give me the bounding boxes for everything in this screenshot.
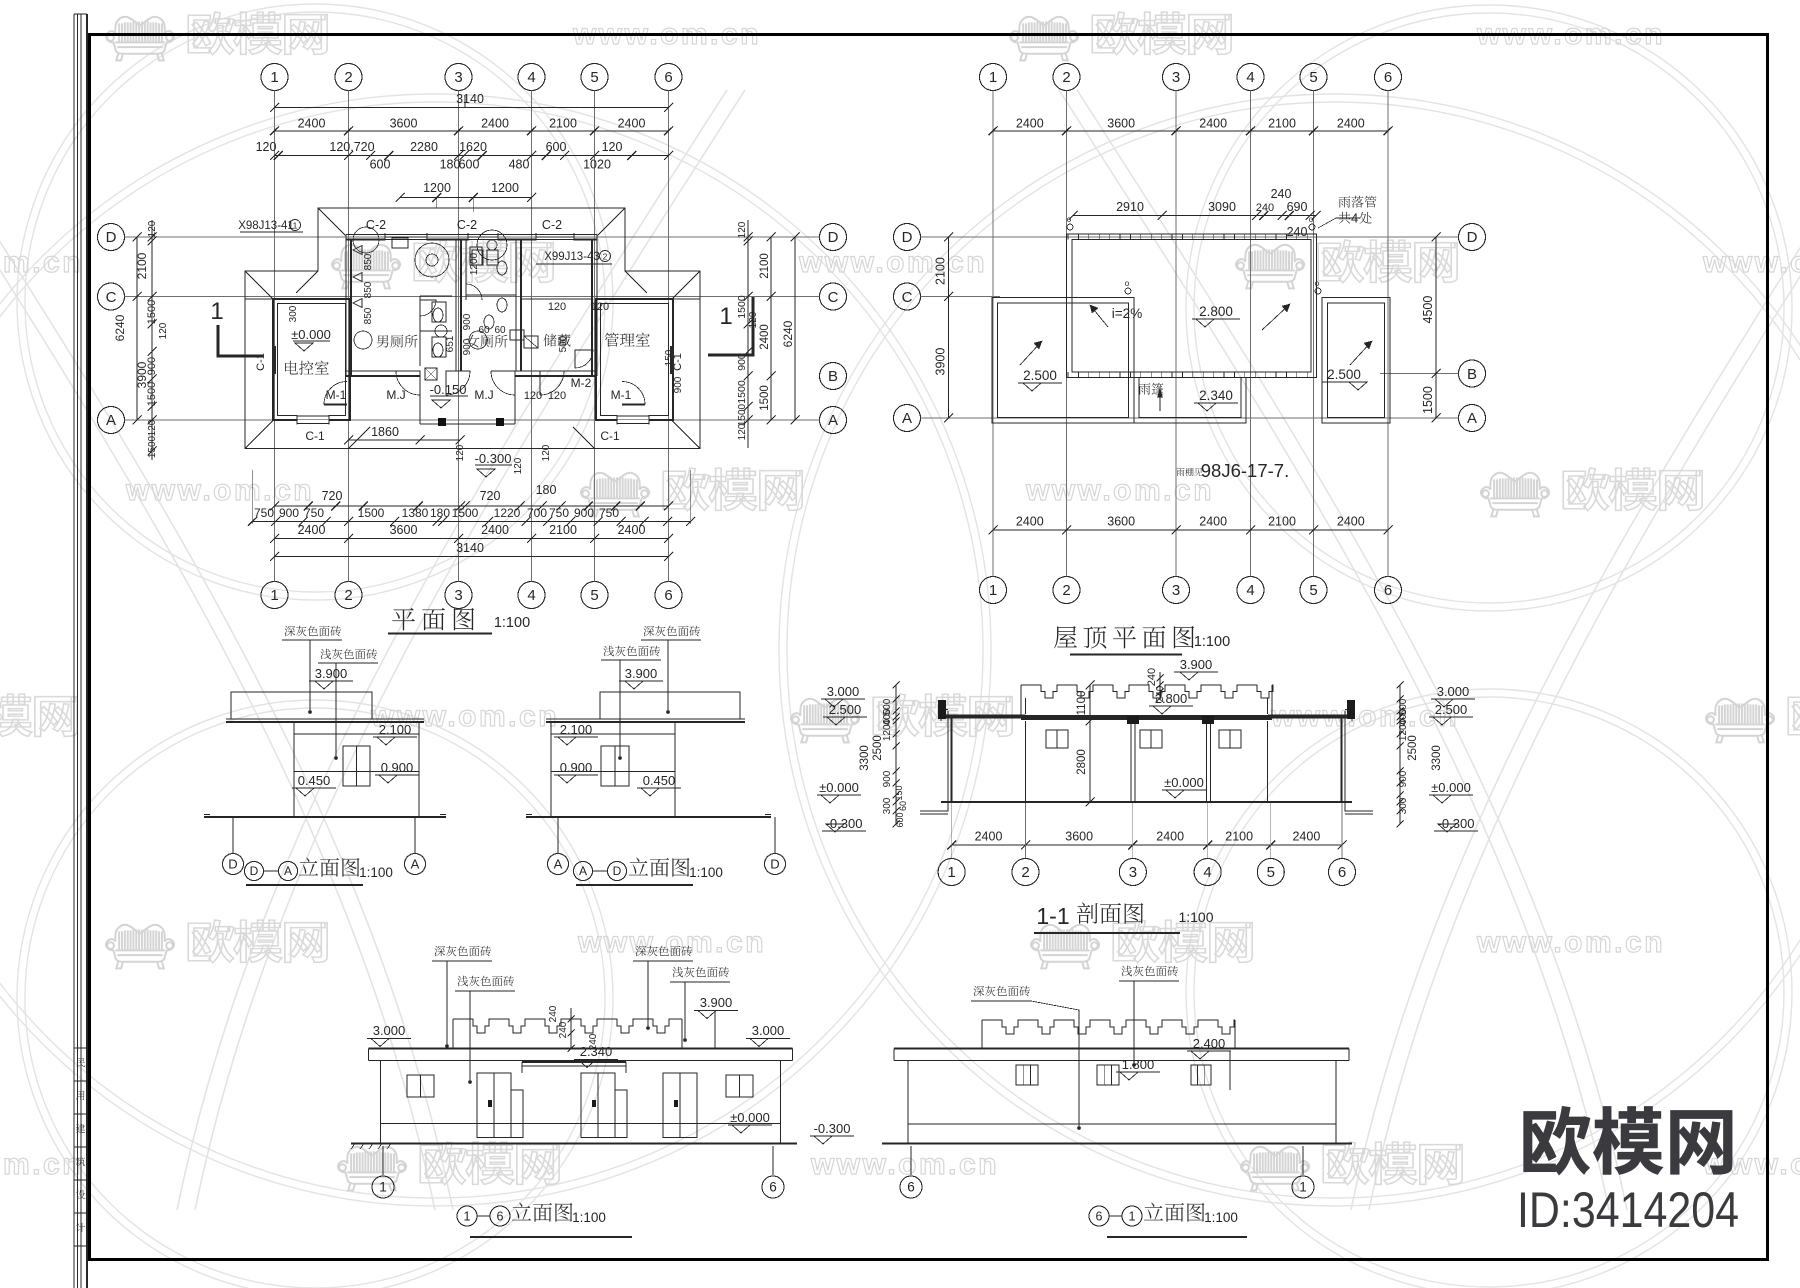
svg-text:0.900: 0.900 <box>560 760 593 775</box>
svg-text:2: 2 <box>344 587 352 604</box>
svg-text:±0.000: ±0.000 <box>1431 780 1471 795</box>
svg-text:300: 300 <box>882 797 893 814</box>
svg-text:120,720: 120,720 <box>329 140 374 154</box>
svg-text:0.450: 0.450 <box>298 773 331 788</box>
svg-text:4: 4 <box>1246 582 1254 599</box>
svg-text:120: 120 <box>737 423 748 440</box>
elevation A-D title <box>574 862 593 881</box>
svg-text:2400: 2400 <box>618 117 646 131</box>
floor plan left grid circles D C A <box>98 224 125 251</box>
floor plan urinal circle left <box>353 227 379 253</box>
svg-text:4: 4 <box>527 587 535 604</box>
floor plan wing bottom windows C-1 <box>297 415 329 424</box>
svg-text:2500: 2500 <box>872 735 884 761</box>
svg-text:60: 60 <box>478 325 490 336</box>
svg-text:2400: 2400 <box>298 523 326 537</box>
svg-text:2.800: 2.800 <box>1199 304 1233 319</box>
svg-text:3600: 3600 <box>1065 830 1093 844</box>
roof plan left vertical dims <box>948 237 950 418</box>
svg-text:2910: 2910 <box>1116 200 1144 214</box>
elevation 6-1 leader light grey tile <box>1121 966 1178 977</box>
svg-text:480: 480 <box>509 158 530 172</box>
elevation 1-6 wall band line <box>381 1123 781 1125</box>
elevation D-A leader dark grey tile <box>285 626 342 637</box>
svg-text:2400: 2400 <box>1156 830 1184 844</box>
elevation 6-1 ground line <box>882 1142 1352 1144</box>
svg-text:3140: 3140 <box>456 541 484 555</box>
svg-text:120: 120 <box>524 390 542 402</box>
svg-text:2: 2 <box>344 69 352 86</box>
elevation 6-1 grid circle 1 <box>1302 1146 1304 1175</box>
svg-text:1: 1 <box>1129 1209 1136 1223</box>
roof plan left wing roof <box>992 298 1134 424</box>
floor plan stall partitions mens <box>420 295 452 297</box>
svg-text:2400: 2400 <box>975 830 1003 844</box>
roof plan top dims 2910 3090 <box>1073 215 1316 217</box>
elevation 1-6 window left <box>407 1075 434 1097</box>
svg-text:2: 2 <box>1062 69 1070 86</box>
section grid circles <box>938 859 965 886</box>
svg-text:C-2: C-2 <box>457 218 477 232</box>
svg-text:2100: 2100 <box>1268 515 1296 529</box>
svg-text:651: 651 <box>445 335 456 352</box>
roof plan note 98J6-17-7 <box>1176 468 1202 476</box>
elevation 1-6 crenellated parapet block <box>452 1019 454 1049</box>
svg-text:D: D <box>106 229 117 246</box>
section ground slab <box>941 801 1352 803</box>
roof plan right vertical dims <box>1435 237 1437 418</box>
section dim 1100 vertical <box>1089 685 1091 721</box>
svg-text:1380: 1380 <box>402 506 429 520</box>
svg-text:5: 5 <box>590 69 598 86</box>
svg-text:0.900: 0.900 <box>381 760 414 775</box>
svg-text:2: 2 <box>1021 864 1029 881</box>
svg-text:150: 150 <box>664 349 675 366</box>
floor plan grid circles top <box>261 64 288 91</box>
svg-text:4: 4 <box>527 69 535 86</box>
svg-text:o: o <box>1315 279 1320 288</box>
elevation D-A grid circle A <box>414 817 416 853</box>
floor plan wing eave inner lines <box>245 298 273 300</box>
svg-text:M.J: M.J <box>474 388 493 402</box>
floor plan top dimension row spans <box>275 130 669 132</box>
elevation 1-6 leader dark grey tile a <box>435 946 492 957</box>
svg-text:1:100: 1:100 <box>494 615 530 631</box>
floor plan right wing room walls <box>596 299 673 420</box>
svg-text:6: 6 <box>907 1180 915 1195</box>
svg-text:150: 150 <box>894 785 904 800</box>
svg-text:4: 4 <box>1246 69 1254 86</box>
svg-text:4: 4 <box>1203 864 1211 881</box>
svg-text:3.900: 3.900 <box>625 666 658 681</box>
svg-text:M-1: M-1 <box>611 388 632 402</box>
svg-text:1500: 1500 <box>737 403 748 426</box>
svg-text:6: 6 <box>1338 864 1346 881</box>
svg-text:1: 1 <box>989 582 997 599</box>
roof plan vertical grid lines <box>992 91 994 577</box>
svg-text:X99J13-43: X99J13-43 <box>544 251 600 263</box>
svg-text:±0.000: ±0.000 <box>730 1110 770 1125</box>
roof plan grid circles top <box>980 64 1007 91</box>
svg-text:1860: 1860 <box>371 425 399 439</box>
floor plan bottom dims row fine <box>253 521 691 523</box>
svg-text:1500: 1500 <box>736 380 748 404</box>
svg-text:A: A <box>106 412 116 429</box>
svg-text:C: C <box>902 289 913 306</box>
elevation 1-6 title <box>457 1206 477 1226</box>
svg-text:120: 120 <box>147 419 158 436</box>
svg-text:A: A <box>902 410 912 427</box>
svg-text:2.500: 2.500 <box>1023 368 1057 383</box>
svg-text:1:100: 1:100 <box>689 865 723 880</box>
svg-text:www.om.cn: www.om.cn <box>1702 246 1800 279</box>
svg-text:120: 120 <box>147 220 158 237</box>
svg-text:2.340: 2.340 <box>1199 388 1233 403</box>
svg-text:1-1: 1-1 <box>1036 903 1069 929</box>
svg-text:1500: 1500 <box>358 506 385 520</box>
svg-text:850: 850 <box>363 307 374 324</box>
svg-text:240: 240 <box>548 1005 559 1022</box>
svg-text:2.100: 2.100 <box>560 722 593 737</box>
svg-text:0.450: 0.450 <box>643 773 676 788</box>
svg-text:750: 750 <box>254 506 274 520</box>
svg-text:900: 900 <box>1398 770 1409 787</box>
elevation A-D grid circle A <box>557 817 559 853</box>
roof plan right wing roof <box>1322 298 1390 424</box>
section interior wall grid4 <box>1206 721 1208 802</box>
svg-text:-0.300: -0.300 <box>475 451 512 466</box>
floor plan roof hip diagonals <box>318 208 346 236</box>
roof plan parapet ticks bottom <box>1067 372 1069 378</box>
svg-text:www.om.cn: www.om.cn <box>0 246 83 279</box>
svg-text:850: 850 <box>363 253 374 270</box>
svg-text:4500: 4500 <box>1421 296 1435 324</box>
svg-text:750: 750 <box>304 506 324 520</box>
svg-text:690: 690 <box>1287 200 1308 214</box>
elevation 1-6 door 3 <box>663 1073 697 1138</box>
svg-text:6: 6 <box>1384 582 1392 599</box>
svg-text:1:100: 1:100 <box>1178 909 1213 925</box>
svg-text:1100: 1100 <box>1076 691 1088 716</box>
svg-text:6240: 6240 <box>113 314 127 341</box>
elevation A-D level lines across wall <box>551 733 675 735</box>
svg-text:1: 1 <box>270 69 278 86</box>
floor plan partition grid3 <box>455 240 457 372</box>
floor plan top dimension total 3140 <box>275 107 669 109</box>
floor plan right grid circles D C B A <box>820 224 847 251</box>
svg-text:A: A <box>579 864 587 878</box>
elevation 1-6 eave band <box>369 1048 793 1050</box>
svg-text:180: 180 <box>440 158 461 172</box>
floor plan right dimension chains <box>747 220 749 448</box>
elevation A-D grid circle D <box>774 817 776 853</box>
svg-text:1: 1 <box>947 864 955 881</box>
svg-text:240: 240 <box>558 1021 569 1038</box>
floor plan dim 1860 <box>349 439 461 441</box>
svg-text:D: D <box>1467 229 1478 246</box>
svg-text:1220: 1220 <box>494 506 521 520</box>
svg-text:C-1: C-1 <box>600 429 620 443</box>
svg-text:www.om.cn: www.om.cn <box>125 474 314 507</box>
elevation 1-6 leader light grey tile a <box>457 976 514 987</box>
svg-text:2400: 2400 <box>481 523 509 537</box>
roof plan central roof slab outline <box>1067 234 1317 378</box>
elevation 6-1 window b <box>1097 1065 1119 1085</box>
svg-text:2280: 2280 <box>410 140 438 154</box>
svg-text:3300: 3300 <box>859 745 871 771</box>
section right outer wall <box>1344 711 1346 802</box>
svg-text:120: 120 <box>158 322 169 339</box>
svg-text:1: 1 <box>379 1180 387 1195</box>
svg-text:A: A <box>284 864 292 878</box>
svg-text:3600: 3600 <box>390 117 418 131</box>
elevation 6-1 title <box>1089 1206 1109 1226</box>
svg-text:1500: 1500 <box>759 385 771 411</box>
svg-text:2100: 2100 <box>549 523 577 537</box>
svg-text:www.om.cn: www.om.cn <box>810 1148 999 1181</box>
elevation 1-6 leader light grey tile b <box>672 967 729 978</box>
svg-text:C: C <box>828 289 839 306</box>
floor plan inner door mens <box>420 300 436 316</box>
floor plan toilet fixtures mens <box>433 308 443 322</box>
floor plan wash basins mens wall <box>353 246 362 255</box>
elevation 1-6 grid circle 1 <box>382 1146 384 1175</box>
svg-text:o: o <box>1125 279 1130 288</box>
svg-text:600: 600 <box>895 812 905 827</box>
svg-text:www.om.cn: www.om.cn <box>798 246 987 279</box>
svg-text:300: 300 <box>288 305 299 322</box>
section window grid2-3 room <box>1046 730 1068 748</box>
svg-text:2.340: 2.340 <box>580 1044 613 1059</box>
svg-text:2400: 2400 <box>1292 830 1320 844</box>
svg-text:3090: 3090 <box>1208 200 1236 214</box>
svg-text:600: 600 <box>546 140 567 154</box>
roof plan rain pipes <box>1067 224 1073 230</box>
section right wing roof slab <box>1268 715 1352 719</box>
roof plan label rain leader <box>1339 196 1377 208</box>
svg-text:300: 300 <box>1398 797 1409 814</box>
svg-text:120: 120 <box>737 221 748 238</box>
svg-text:120: 120 <box>513 457 524 474</box>
svg-text:B: B <box>1467 366 1477 383</box>
svg-text:1200: 1200 <box>469 252 480 275</box>
elevation 6-1 grid circle 6 <box>910 1146 912 1175</box>
elevation D-A wall box <box>294 722 419 817</box>
floor plan bottom dims row 720 <box>275 505 669 507</box>
elevation 6-1 wall band line <box>908 1123 1336 1125</box>
svg-text:A: A <box>411 857 420 872</box>
svg-text:900: 900 <box>462 313 473 330</box>
svg-text:1500: 1500 <box>146 382 158 406</box>
svg-text:6: 6 <box>769 1180 777 1195</box>
svg-text:700: 700 <box>527 506 547 520</box>
svg-text:5: 5 <box>590 587 598 604</box>
svg-text:www.om.cn: www.om.cn <box>1476 926 1665 959</box>
roof plan horizontal grid lines <box>921 236 1459 238</box>
section left outer wall <box>947 711 949 802</box>
svg-text:D: D <box>770 857 779 872</box>
svg-text:6240: 6240 <box>781 320 795 347</box>
section grid leader lines <box>951 803 953 858</box>
svg-text:3.900: 3.900 <box>315 666 348 681</box>
floor plan left wing window C-1 <box>272 346 276 374</box>
roof plan right grid circles <box>1459 224 1486 251</box>
elevation 1-6 door 2 center <box>581 1073 615 1138</box>
floor plan left wing room walls <box>273 299 350 420</box>
svg-text:D: D <box>250 864 259 878</box>
svg-text:1: 1 <box>270 587 278 604</box>
svg-text:500: 500 <box>558 335 569 352</box>
svg-text:600: 600 <box>370 158 391 172</box>
roof plan left grid circles <box>894 224 921 251</box>
svg-text:2100: 2100 <box>135 252 149 279</box>
floor plan grid circles bottom <box>261 582 288 609</box>
svg-text:3.000: 3.000 <box>827 684 860 699</box>
floor plan partition storage <box>515 240 517 372</box>
svg-text:-0.300: -0.300 <box>814 1121 851 1136</box>
svg-text:3.900: 3.900 <box>700 995 733 1010</box>
svg-text:2400: 2400 <box>1337 117 1365 131</box>
svg-text:www.om.cn: www.om.cn <box>0 1148 83 1181</box>
svg-text:±0.000: ±0.000 <box>291 327 331 342</box>
floor plan roof outline <box>245 208 700 449</box>
section footing right <box>1345 802 1373 811</box>
elevation D-A roof slab line <box>226 718 424 720</box>
elevation A-D parapet box <box>600 692 740 719</box>
svg-text:1: 1 <box>293 221 298 231</box>
svg-text:A: A <box>1467 410 1477 427</box>
elevation D-A ground line <box>204 816 446 818</box>
svg-text:1620: 1620 <box>459 140 487 154</box>
svg-text:±0.000: ±0.000 <box>1164 775 1204 790</box>
svg-text:3: 3 <box>454 69 462 86</box>
svg-text:2800: 2800 <box>1076 749 1088 775</box>
elevation 1-6 outer walls <box>380 1061 382 1144</box>
elevation 1-6 canopy over doors <box>522 1061 626 1063</box>
floor plan left dimension chains <box>136 237 138 420</box>
svg-text:60: 60 <box>494 325 506 336</box>
svg-text:C-2: C-2 <box>366 218 386 232</box>
svg-text:120: 120 <box>602 140 623 154</box>
watermark tile grid <box>106 17 174 61</box>
svg-text:A: A <box>554 857 563 872</box>
svg-text:2100: 2100 <box>759 253 771 279</box>
section dim 2800 vertical <box>1089 721 1091 802</box>
left title strip <box>73 14 75 1288</box>
floor plan womens fixtures <box>477 230 507 260</box>
svg-text:240: 240 <box>1287 225 1308 239</box>
svg-text:B: B <box>828 368 838 385</box>
svg-text:1500: 1500 <box>452 506 479 520</box>
svg-text:2100: 2100 <box>934 257 948 285</box>
svg-text:3.000: 3.000 <box>752 1023 785 1038</box>
floor plan mens lav circle <box>354 331 372 349</box>
elevation 6-1 eave band <box>894 1048 1349 1050</box>
floor plan extension verticals bottom <box>252 470 254 524</box>
svg-text:3140: 3140 <box>456 92 484 106</box>
section window grid3-4 room <box>1140 730 1162 748</box>
svg-text:600: 600 <box>459 158 480 172</box>
floor plan room label men toilet <box>377 335 418 348</box>
svg-text:120: 120 <box>591 301 609 313</box>
floor plan room label management <box>605 333 650 347</box>
elevation 1-6 grid circle 6 <box>772 1146 774 1175</box>
svg-text:M-1: M-1 <box>326 388 347 402</box>
svg-text:C-2: C-2 <box>542 218 562 232</box>
svg-text:2400: 2400 <box>618 523 646 537</box>
svg-text:6: 6 <box>497 1209 504 1223</box>
svg-text:3600: 3600 <box>1107 117 1135 131</box>
svg-text:1: 1 <box>719 303 732 330</box>
floor plan womens squat fixtures <box>472 250 483 265</box>
svg-text:900: 900 <box>882 770 893 787</box>
svg-text:120: 120 <box>548 390 566 402</box>
svg-text:120: 120 <box>541 444 552 461</box>
section central crenellated parapet <box>1021 685 1273 698</box>
elevation D-A grid circle D <box>232 817 234 853</box>
floor plan room label storage <box>544 334 571 347</box>
svg-text:2.500: 2.500 <box>1327 367 1361 382</box>
svg-text:120: 120 <box>455 444 466 461</box>
svg-text:180: 180 <box>430 506 450 520</box>
svg-text:2400: 2400 <box>1337 515 1365 529</box>
svg-text:1500: 1500 <box>146 300 158 324</box>
svg-text:X98J13-41: X98J13-41 <box>238 220 294 232</box>
section interior wall grid3 <box>1130 721 1132 802</box>
svg-text:2.500: 2.500 <box>829 702 862 717</box>
svg-text:900: 900 <box>146 357 158 375</box>
svg-text:2400: 2400 <box>759 324 771 350</box>
elevation D-A parapet box <box>231 692 372 719</box>
elevation 6-1 outer walls <box>907 1061 909 1144</box>
svg-text:2: 2 <box>603 252 608 262</box>
section central parapet walls <box>1020 685 1022 717</box>
svg-text:3: 3 <box>1172 582 1180 599</box>
roof plan canopy label <box>1139 383 1164 395</box>
roof plan grid circles bottom <box>980 577 1007 604</box>
svg-text:2100: 2100 <box>549 117 577 131</box>
floor plan room label dian kong shi <box>285 361 329 375</box>
svg-text:3: 3 <box>454 587 462 604</box>
svg-text:2.400: 2.400 <box>1193 1036 1226 1051</box>
svg-text:www.om.cn: www.om.cn <box>1025 474 1214 507</box>
elevation 1-6 ground line <box>351 1142 797 1144</box>
svg-text:1200: 1200 <box>491 181 519 195</box>
svg-text:1:100: 1:100 <box>359 865 393 880</box>
floor plan right wing window C-1 side <box>670 346 674 374</box>
elevation A-D wall box <box>551 722 675 817</box>
svg-text:i=2%: i=2% <box>1112 306 1142 321</box>
floor plan section cut marker 1 right <box>708 297 753 355</box>
svg-text:3.900: 3.900 <box>1180 657 1213 672</box>
svg-text:1.800: 1.800 <box>1122 1057 1155 1072</box>
roof plan parapet ticks top <box>1067 234 1069 240</box>
svg-text:D: D <box>902 229 913 246</box>
svg-text:1: 1 <box>464 1209 471 1223</box>
svg-text:900: 900 <box>574 506 594 520</box>
section footing left <box>920 802 948 811</box>
floor plan C-2 window openings in top wall <box>385 234 427 241</box>
elevation D-A window <box>343 746 370 786</box>
svg-text:3300: 3300 <box>1431 745 1443 771</box>
roof plan slope arrows <box>1090 305 1108 327</box>
svg-text:±0.000: ±0.000 <box>819 780 859 795</box>
svg-text:1500: 1500 <box>1421 386 1435 414</box>
svg-text:120: 120 <box>548 301 566 313</box>
svg-text:M-2: M-2 <box>571 376 592 390</box>
svg-text:2.500: 2.500 <box>1435 702 1468 717</box>
svg-text:1:100: 1:100 <box>1194 634 1230 650</box>
